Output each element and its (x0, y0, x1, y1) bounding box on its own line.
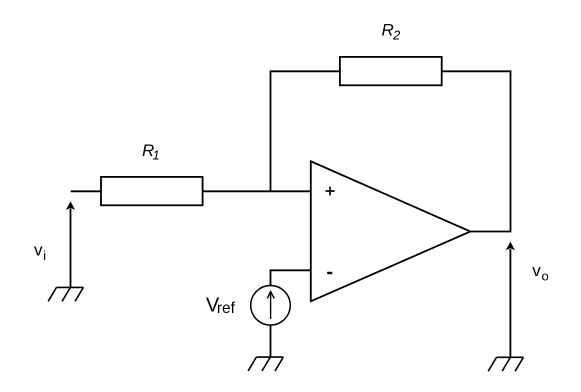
svg-text:v: v (532, 261, 541, 280)
svg-text:i: i (43, 248, 46, 263)
svg-text:v: v (34, 241, 43, 260)
svg-text:o: o (542, 268, 549, 283)
svg-text:2: 2 (392, 28, 401, 43)
svg-text:ref: ref (217, 300, 236, 317)
svg-text:1: 1 (153, 148, 160, 163)
svg-text:R: R (382, 21, 394, 40)
